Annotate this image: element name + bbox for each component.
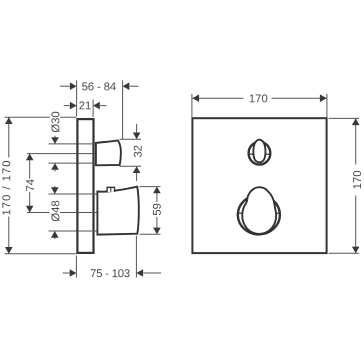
dimension 59 line [156, 193, 158, 202]
top knob tick left [248, 153, 253, 155]
bottom knob teardrop [242, 187, 276, 234]
label 56 - 84 [82, 82, 116, 90]
bottom knob ring [238, 195, 280, 234]
ext line neck o48 top [49, 193, 99, 195]
dimension 170 top line [192, 97, 243, 99]
ext line handle tip top [122, 80, 124, 139]
dimension 75-103 line [63, 272, 70, 274]
ext line 74 top [27, 153, 97, 155]
dimension 59 exts [140, 186, 161, 188]
bottom handle side view [97, 187, 138, 235]
dimension 170 right line [355, 118, 357, 164]
ext line square right bottom [329, 252, 359, 254]
dimension 21 line [64, 105, 70, 107]
label 59 [153, 204, 161, 216]
bottom knob tick right [276, 212, 280, 214]
ext line plate top left [5, 116, 77, 118]
label o48 [50, 200, 61, 224]
bottom knob tick left [238, 212, 242, 214]
ext line wall face [76, 80, 78, 116]
ext line neck o30 bottom [49, 162, 97, 164]
ext line plate bottom left [5, 253, 77, 255]
safety button tab [107, 187, 114, 192]
ext line square top-left [191, 94, 193, 117]
ext line plate front [92, 100, 94, 117]
dimension o30 arrows [54, 136, 56, 138]
wall plate side view [77, 119, 93, 253]
label 32 [134, 146, 142, 158]
label 75 - 103 [91, 269, 130, 277]
label 74 [26, 179, 34, 191]
dimension 32 exts [120, 138, 142, 140]
top knob tick right [266, 153, 271, 155]
dimension 170/170 line [8, 117, 10, 157]
dimension o48 arrows [54, 186, 56, 188]
neck line redraw bottom [79, 193, 99, 195]
ext line 75-103 left [75, 256, 77, 278]
dimension 56-84 line [60, 85, 70, 87]
label o30 [50, 111, 60, 134]
ext line 75-103 right [135, 236, 137, 278]
ext line neck o48 bottom [49, 230, 99, 232]
ext line square top-right [326, 94, 328, 117]
label 21 [79, 101, 90, 109]
top knob ring [249, 142, 271, 165]
label 170 / 170 [2, 161, 10, 215]
ext line 74 bottom [27, 212, 99, 214]
ext line neck o30 top [49, 143, 97, 145]
dimension 74 line [29, 154, 31, 179]
top handle side view [96, 140, 121, 165]
top knob egg [253, 140, 265, 163]
ext line square right top [329, 117, 359, 119]
dimension 32 arrows [136, 124, 138, 133]
label 170 right [353, 171, 361, 189]
label 170 top [250, 94, 268, 102]
escutcheon square front view [192, 118, 326, 253]
neck line redraw top [79, 143, 97, 145]
